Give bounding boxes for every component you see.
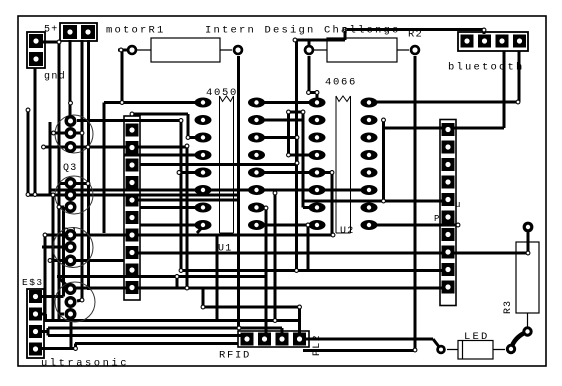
svg-text:Intern Design Challenge: Intern Design Challenge [205, 25, 401, 37]
svg-text:RFID: RFID [219, 350, 251, 362]
svg-text:u: u [455, 200, 463, 210]
svg-text:PL2: PL2 [312, 334, 323, 356]
svg-text:Q3: Q3 [63, 163, 77, 174]
svg-text:Q4: Q4 [63, 227, 77, 238]
svg-text:P: P [434, 214, 442, 224]
svg-text:bluetooth: bluetooth [448, 62, 525, 74]
svg-text:5+: 5+ [44, 25, 58, 36]
svg-text:LED: LED [464, 331, 490, 343]
svg-text:U2: U2 [340, 226, 354, 237]
svg-text:ultrasonic: ultrasonic [41, 358, 129, 370]
svg-text:R3: R3 [503, 300, 514, 314]
svg-text:4066: 4066 [325, 77, 357, 89]
svg-text:E$3: E$3 [22, 277, 44, 288]
svg-text:4050: 4050 [206, 87, 238, 99]
svg-text:gnd: gnd [44, 71, 66, 83]
svg-text:U1: U1 [218, 244, 232, 255]
svg-text:motorR1: motorR1 [106, 25, 166, 37]
svg-text:R2: R2 [408, 29, 423, 41]
